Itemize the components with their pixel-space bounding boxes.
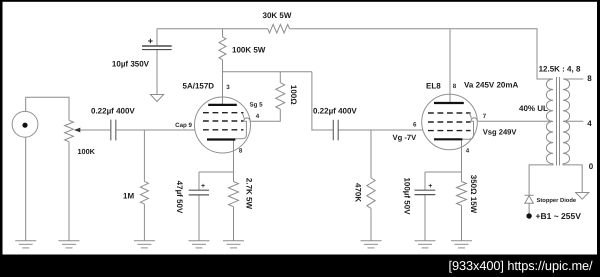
svg-text:100Ω: 100Ω — [289, 85, 298, 105]
wire: plate node horizontal — [223, 71, 312, 73]
svg-text:Cap 9: Cap 9 — [175, 122, 192, 129]
wire: 10uF to chassis ground — [156, 50, 158, 95]
V1 grid rows (dashed) — [203, 113, 244, 130]
svg-text:0.22µf 400V: 0.22µf 400V — [313, 107, 357, 116]
svg-text:0: 0 — [589, 162, 594, 171]
resistor 350 ohm 15W — [457, 182, 467, 206]
wire: 350R top — [461, 172, 463, 182]
V1 screen diagonal from top grid row — [242, 113, 245, 119]
capacitor 10uF 350V plates — [142, 46, 435, 195]
wire: riser down to C2 — [312, 72, 333, 130]
wire: 470K top — [370, 130, 372, 178]
V1 grid2 tie to cathode — [235, 121, 246, 139]
wire: OPT secondary 0 to ground — [563, 164, 582, 193]
V2 grid2 tie to cathode — [462, 121, 473, 139]
svg-text:10µf 350V: 10µf 350V — [112, 59, 150, 68]
wire: 100K5W bottom to plate junction — [222, 60, 224, 105]
tube V2 EL8 envelope — [422, 94, 478, 150]
resistor 30K 5W — [268, 24, 290, 33]
svg-text:47µf 50V: 47µf 50V — [175, 181, 184, 214]
V2 plate bar — [434, 102, 464, 104]
wire: EL8 cathode junction to 100uF — [425, 171, 462, 173]
svg-text:350Ω 15W: 350Ω 15W — [469, 175, 478, 214]
svg-text:+: + — [428, 183, 432, 190]
svg-text:[933x400] https://upic.me/: [933x400] https://upic.me/ — [449, 258, 593, 273]
ground: 470K — [361, 240, 382, 242]
ground: 47uF — [189, 240, 210, 242]
resistor 1M — [140, 181, 148, 204]
wire: EL8 cathode down — [461, 140, 463, 172]
svg-text:7: 7 — [483, 113, 487, 120]
wire: 2.7K top — [233, 172, 235, 182]
watermark text — [449, 258, 593, 273]
stopper diode D1 — [525, 195, 534, 203]
ground: 100uF — [415, 240, 436, 242]
svg-text:4: 4 — [466, 148, 470, 155]
svg-text:+: + — [148, 36, 153, 46]
svg-text:100K: 100K — [78, 147, 96, 156]
ground: 2.7K — [223, 240, 244, 242]
tube V1 5A/157D envelope — [195, 97, 251, 153]
svg-text:3: 3 — [226, 84, 230, 91]
ground: pot — [59, 240, 80, 242]
ground triangle: 10uF — [150, 95, 163, 102]
capacitor C2 0.22uF 400V plates — [332, 120, 334, 141]
input jack center dot — [22, 123, 27, 128]
wire: C2 to EL8 grid pin 6 — [338, 129, 422, 131]
wire: rail to EL8 plate pin 8 — [449, 29, 451, 103]
svg-text:30K 5W: 30K 5W — [263, 11, 292, 20]
wire: 1M bottom — [143, 204, 145, 241]
wire: pot bottom to ground — [68, 142, 70, 241]
wire: 47uF bottom to ground — [198, 195, 200, 241]
svg-text:6: 6 — [413, 121, 417, 128]
wire: top rail right (30K to OPT corner) — [290, 29, 554, 79]
input jack circle — [12, 111, 38, 137]
capacitor 47uF 50V plates — [189, 189, 209, 191]
ground: 1M — [134, 240, 155, 242]
wire: OPT secondary 4 tap — [564, 120, 583, 122]
wire: 1M top — [143, 130, 145, 181]
resistor 2.7K 5W — [229, 182, 239, 207]
wire: 100R top — [279, 72, 281, 83]
resistor 100 ohm — [276, 83, 285, 110]
wire: diode to B1 dot — [528, 203, 530, 213]
V2 cathode bar — [434, 138, 462, 140]
potentiometer 100K — [65, 120, 74, 141]
wire: 100R bottom to V1 screen pin 4 — [250, 109, 280, 121]
V1 screen wire hop arc over tie — [244, 118, 251, 121]
svg-text:Sg 5: Sg 5 — [250, 101, 264, 108]
ground: 350R — [451, 240, 472, 242]
svg-text:4: 4 — [587, 119, 592, 128]
wire: C1 to grid of V1 — [116, 129, 194, 131]
resistor 470K — [367, 178, 375, 208]
svg-text:100µf 50V: 100µf 50V — [402, 177, 411, 215]
svg-text:8: 8 — [587, 74, 592, 83]
svg-text:8: 8 — [239, 148, 243, 155]
wire: 100uF bottom to ground — [424, 194, 426, 240]
pot wiper arrow — [74, 128, 80, 133]
svg-text:0.22µf 400V: 0.22µf 400V — [91, 107, 135, 116]
wire: EL8 screen pin 7 to UL tap — [478, 120, 552, 122]
wire: 470K bottom to ground — [370, 208, 372, 240]
V1 plate bar — [208, 104, 237, 106]
wire: jack bottom to ground — [25, 137, 27, 241]
capacitor 100uF 50V plates — [415, 189, 436, 191]
transformer T1 primary winding — [546, 79, 553, 164]
svg-text:EL8: EL8 — [426, 82, 441, 91]
svg-text:5A/157D: 5A/157D — [183, 82, 215, 91]
svg-text:Vg -7V: Vg -7V — [393, 133, 418, 142]
wire: OPT primary bottom to stopper diode — [529, 164, 553, 196]
svg-text:1M: 1M — [123, 191, 134, 200]
capacitor C1 0.22uF 400V plates — [111, 120, 338, 141]
wire: jack top to pot top — [26, 97, 69, 120]
node B1 dot — [526, 213, 531, 218]
ground triangle: OPT secondary 0 — [576, 193, 589, 200]
svg-text:Stopper Diode: Stopper Diode — [537, 197, 577, 204]
V2 grid rows (dashed) — [428, 113, 471, 131]
svg-text:Vsg 249V: Vsg 249V — [483, 127, 518, 136]
svg-text:40% UL: 40% UL — [519, 104, 548, 113]
V1 cathode bar — [207, 138, 235, 140]
wire: pot wiper to cap C1 — [80, 129, 110, 131]
svg-text:4: 4 — [256, 113, 260, 120]
wire: OPT secondary 8 terminal — [563, 78, 583, 80]
bottom watermark bar — [0, 255, 600, 277]
svg-text:470K: 470K — [354, 183, 363, 202]
wire: 100uF top — [424, 172, 426, 190]
svg-text:100K 5W: 100K 5W — [232, 45, 266, 54]
wire: top rail left (10uF to 30K) — [157, 28, 268, 30]
wire: 350R bottom to ground — [461, 206, 463, 241]
wire: 47uF top — [198, 172, 200, 190]
wire: cathode junction to 47uF — [199, 171, 234, 173]
svg-text:2.7K 5W: 2.7K 5W — [245, 178, 254, 210]
transformer T1 secondary winding — [563, 79, 570, 164]
wire: rail to 100K5W top — [222, 29, 224, 37]
svg-text:+: + — [201, 183, 205, 190]
resistor 100K 5W — [219, 37, 226, 60]
V2 screen diagonal from top grid row — [469, 113, 472, 118]
wire: 2.7K bottom to ground — [233, 207, 235, 241]
svg-text:12.5K : 4, 8: 12.5K : 4, 8 — [539, 65, 581, 74]
svg-text:8: 8 — [453, 83, 457, 90]
svg-text:+B1 ~ 255V: +B1 ~ 255V — [536, 211, 582, 221]
border frame — [0, 0, 600, 2]
ground: input jack — [15, 240, 36, 242]
wire: 10uF riser — [156, 29, 158, 46]
V2 screen wire hop arc over tie — [471, 118, 478, 121]
transformer core lines — [556, 77, 558, 166]
wire: V1 cathode down — [233, 141, 235, 173]
svg-text:Va 245V 20mA: Va 245V 20mA — [464, 81, 518, 90]
